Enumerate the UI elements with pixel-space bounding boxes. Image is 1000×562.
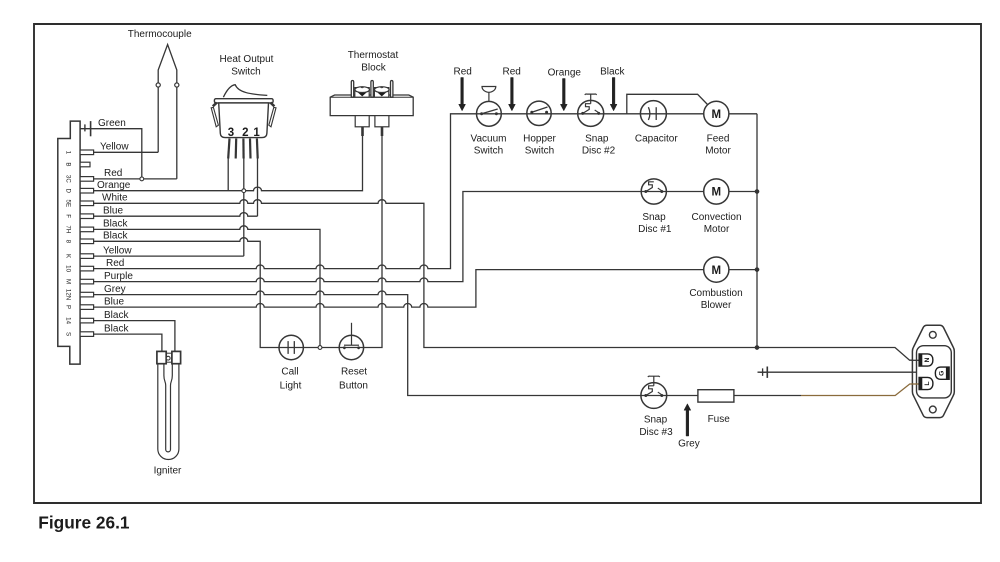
thermocouple	[156, 45, 179, 179]
connector pin 12N	[65, 289, 94, 300]
svg-text:Black: Black	[103, 219, 128, 230]
arrow Grey up	[684, 404, 691, 436]
svg-text:D: D	[65, 188, 72, 193]
svg-text:Green: Green	[98, 118, 126, 129]
wire black 3	[94, 321, 175, 352]
svg-text:Fuse: Fuse	[708, 414, 731, 425]
wire yellow	[94, 151, 159, 153]
svg-text:S: S	[65, 332, 72, 336]
connector pin S	[65, 332, 94, 337]
svg-text:Red: Red	[106, 258, 124, 269]
svg-text:Orange: Orange	[548, 67, 582, 78]
svg-text:Thermostat: Thermostat	[348, 50, 399, 61]
svg-text:G: G	[939, 371, 946, 376]
svg-text:Switch: Switch	[474, 146, 503, 157]
svg-text:M: M	[712, 187, 722, 199]
svg-text:Red: Red	[454, 66, 472, 77]
thermostat block TB1	[330, 81, 413, 137]
igniter E1	[157, 351, 181, 459]
svg-text:Black: Black	[600, 66, 625, 77]
svg-text:P: P	[65, 305, 72, 309]
wire red 2	[94, 114, 757, 269]
svg-text:F: F	[65, 214, 72, 218]
wire blue 1	[94, 213, 258, 217]
junction ring call-reset	[318, 346, 322, 350]
svg-text:Blue: Blue	[103, 206, 123, 217]
svg-text:Switch: Switch	[231, 67, 260, 78]
svg-text:Orange: Orange	[97, 180, 131, 191]
power inlet J2	[912, 325, 955, 417]
svg-text:M: M	[712, 109, 722, 121]
connector pin F	[65, 214, 94, 219]
wire brown to L pin	[801, 384, 919, 396]
svg-text:Grey: Grey	[678, 439, 700, 450]
wire right bus	[756, 114, 758, 348]
svg-text:Purple: Purple	[104, 271, 133, 282]
svg-text:Snap: Snap	[642, 212, 666, 223]
connector pin 3C	[65, 175, 94, 183]
connector pin 1	[65, 150, 94, 155]
svg-text:Motor: Motor	[705, 146, 731, 157]
call light DS1	[279, 335, 303, 359]
snap disc #3 S6	[641, 376, 667, 408]
junction dot bus-combustion	[755, 268, 759, 272]
svg-text:Snap: Snap	[644, 415, 668, 426]
svg-text:Yellow: Yellow	[100, 142, 129, 153]
heat output switch SW1	[211, 85, 276, 159]
connector pin 10	[65, 265, 94, 272]
snap disc #1 S4	[641, 179, 666, 204]
svg-text:5E: 5E	[65, 200, 72, 208]
svg-text:7H: 7H	[65, 225, 72, 233]
wire ground lead	[758, 371, 917, 373]
svg-text:Figure 26.1: Figure 26.1	[38, 513, 130, 533]
svg-text:Call: Call	[281, 367, 298, 378]
svg-text:Red: Red	[503, 66, 521, 77]
wire black 1	[94, 226, 320, 348]
wire white	[94, 200, 919, 361]
ground symbol cross	[760, 368, 766, 376]
feed motor M1	[704, 101, 729, 126]
junction ring green-red	[140, 177, 144, 181]
connector J1 body	[58, 121, 80, 364]
arrow Red 2	[509, 78, 516, 111]
green lead bar	[90, 121, 92, 136]
svg-text:Thermocouple: Thermocouple	[128, 29, 192, 40]
wire switch pin 2	[243, 157, 245, 256]
svg-text:Igniter: Igniter	[154, 466, 182, 477]
svg-text:Disc #3: Disc #3	[639, 427, 673, 438]
capacitor C1	[640, 101, 666, 127]
combustion blower M3	[704, 257, 729, 282]
svg-text:Button: Button	[339, 380, 368, 391]
connector pin B	[65, 162, 91, 167]
svg-text:M: M	[65, 279, 72, 284]
svg-text:Combustion: Combustion	[689, 288, 742, 299]
svg-text:14: 14	[65, 317, 72, 324]
svg-text:Black: Black	[104, 310, 129, 321]
svg-text:Black: Black	[104, 323, 129, 334]
junction ring orange-pin2	[242, 189, 246, 193]
reset button S5	[339, 323, 363, 360]
connector pin P	[65, 305, 94, 310]
svg-text:3C: 3C	[65, 175, 72, 183]
svg-text:L: L	[924, 381, 931, 385]
convection motor M2	[704, 179, 729, 204]
svg-text:Black: Black	[103, 231, 128, 242]
wire black 4	[94, 334, 162, 351]
wire switch pin 1	[257, 157, 259, 216]
svg-text:Blower: Blower	[701, 300, 732, 311]
junction dot bus-convection	[755, 189, 759, 193]
svg-text:Blue: Blue	[104, 296, 124, 307]
wire purple	[94, 192, 757, 282]
svg-text:Grey: Grey	[104, 284, 126, 295]
svg-text:Snap: Snap	[585, 134, 609, 145]
snap disc #2 S3	[578, 94, 604, 126]
arrow Orange	[560, 79, 567, 111]
svg-text:M: M	[712, 265, 722, 277]
connector pin M	[65, 279, 94, 284]
svg-text:Light: Light	[280, 380, 302, 391]
wire capacitor bypass	[627, 94, 708, 113]
wire grey	[94, 291, 801, 396]
svg-text:Red: Red	[104, 168, 122, 179]
svg-text:Capacitor: Capacitor	[635, 134, 678, 145]
vacuum switch S1	[477, 87, 502, 127]
svg-text:Convection: Convection	[691, 212, 741, 223]
arrow Black	[610, 78, 617, 111]
wire yellow 2	[94, 255, 244, 257]
svg-text:1: 1	[65, 151, 72, 155]
junction dot bus-neutral	[755, 345, 759, 349]
wire orange	[94, 136, 363, 191]
svg-text:Block: Block	[361, 63, 386, 74]
wire red	[94, 178, 177, 180]
svg-text:B: B	[65, 162, 72, 166]
svg-text:White: White	[102, 193, 128, 204]
wire switch pin 3	[227, 157, 229, 191]
green lead tick	[84, 124, 86, 131]
connector pin D	[65, 188, 94, 193]
svg-text:8: 8	[65, 240, 72, 244]
svg-text:Disc #1: Disc #1	[638, 224, 672, 235]
svg-text:Motor: Motor	[704, 224, 730, 235]
svg-text:Yellow: Yellow	[103, 245, 132, 256]
svg-text:Switch: Switch	[525, 146, 554, 157]
svg-text:Heat Output: Heat Output	[220, 54, 274, 65]
wire green	[80, 129, 142, 179]
wire black 2	[94, 136, 382, 348]
svg-text:Feed: Feed	[707, 134, 730, 145]
arrow Red 1	[459, 78, 466, 111]
connector pin 5E	[65, 200, 94, 208]
connector pin 7H	[65, 225, 94, 233]
svg-text:Hopper: Hopper	[523, 134, 556, 145]
hopper switch S2	[527, 101, 551, 125]
svg-text:3: 3	[228, 127, 234, 139]
connector pin 8	[65, 239, 94, 244]
svg-text:2: 2	[242, 127, 248, 139]
connector pin 14	[65, 317, 94, 324]
svg-text:Disc #2: Disc #2	[582, 146, 616, 157]
ground symbol bar	[766, 367, 768, 378]
connector pin K	[65, 254, 94, 259]
svg-text:1: 1	[253, 127, 260, 139]
wire blue 2	[94, 270, 757, 308]
svg-text:Reset: Reset	[341, 367, 367, 378]
svg-text:N: N	[924, 357, 931, 362]
svg-text:12N: 12N	[65, 289, 72, 300]
fuse F1	[698, 390, 734, 402]
svg-text:10: 10	[65, 265, 72, 272]
svg-text:Vacuum: Vacuum	[471, 134, 507, 145]
